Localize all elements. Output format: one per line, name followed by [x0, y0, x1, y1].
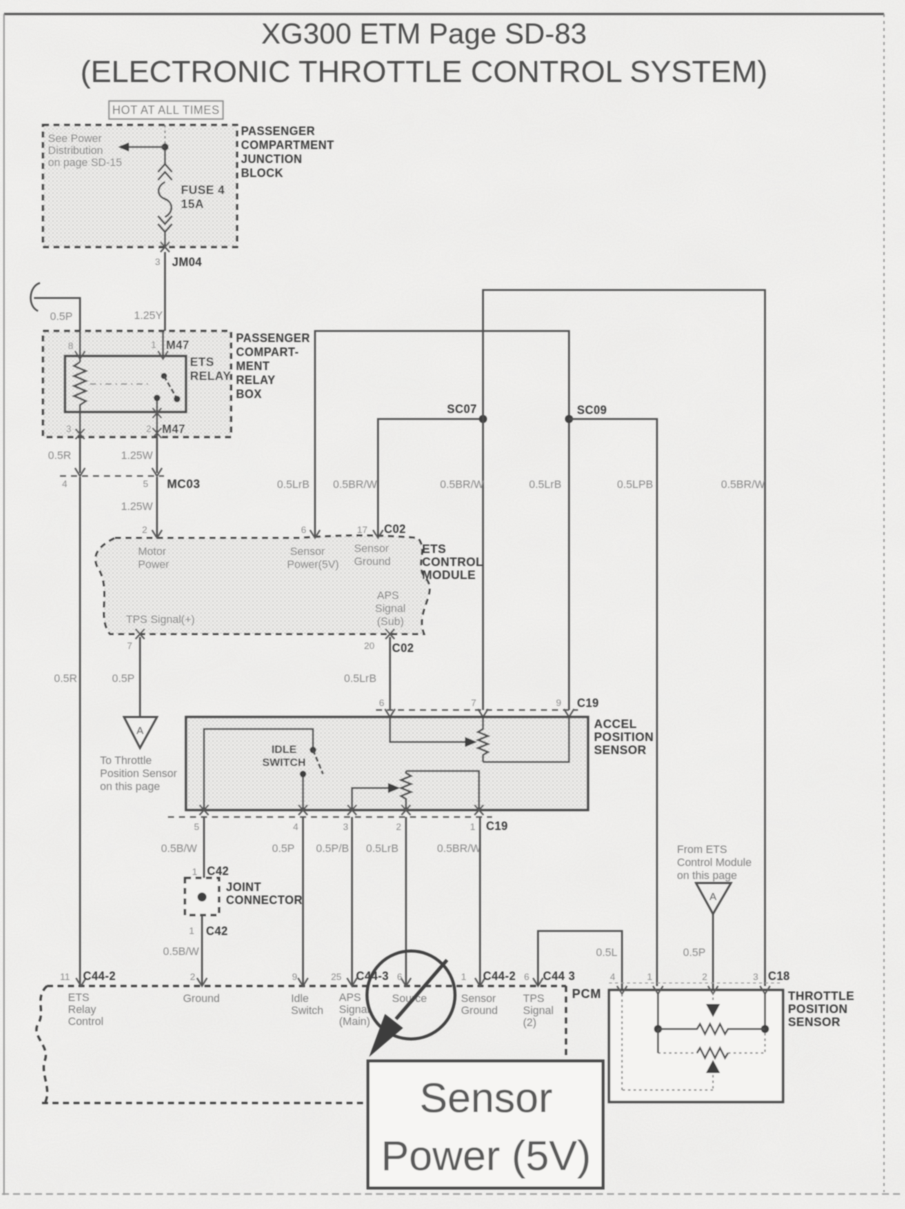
- svg-text:Relay: Relay: [68, 1004, 97, 1016]
- svg-text:0.5P: 0.5P: [112, 673, 135, 685]
- connector C02 bottom: [136, 629, 145, 639]
- connector C18 row: [609, 982, 783, 984]
- svg-text:0.5R: 0.5R: [48, 450, 71, 462]
- svg-text:ETS: ETS: [422, 542, 446, 556]
- svg-text:Switch: Switch: [291, 1005, 323, 1017]
- wire C19 pin2 to PCM source: [405, 817, 407, 986]
- wire C19 pin5 to joint connector C42: [203, 817, 205, 878]
- magnifier arrowhead: [369, 1014, 403, 1057]
- TPS box top pin marks: [617, 986, 627, 994]
- svg-text:9: 9: [292, 972, 297, 983]
- svg-text:0.5LrB: 0.5LrB: [277, 479, 309, 491]
- node SC09: [565, 415, 573, 423]
- relay pin 3 wire: [79, 412, 81, 437]
- relay switch contact top: [161, 373, 167, 379]
- node SC07: [479, 415, 487, 423]
- accel box bottom pin marks: [200, 805, 209, 815]
- accel pot 1 bottom to pin9: [483, 717, 569, 762]
- long left wire 0.5R down to PCM: [79, 477, 81, 986]
- magnifier shaft: [396, 960, 447, 1019]
- svg-text:SC09: SC09: [577, 405, 607, 417]
- fuse F4 connector chevrons top: [158, 164, 172, 180]
- svg-text:1.25Y: 1.25Y: [134, 310, 163, 322]
- svg-text:1: 1: [192, 867, 197, 878]
- idle switch contact bottom: [300, 771, 306, 777]
- page frame bottom: [2, 1193, 903, 1195]
- svg-text:FUSE 4: FUSE 4: [181, 183, 225, 197]
- svg-text:C19: C19: [577, 698, 599, 710]
- arrow to power distribution: [128, 146, 165, 148]
- svg-text:RELAY: RELAY: [190, 369, 231, 383]
- note: From ETS Control Module on this page: [677, 844, 752, 882]
- svg-text:20: 20: [364, 641, 375, 652]
- page frame left: [3, 14, 5, 1195]
- TPS wiper down-arrow: [706, 1004, 720, 1017]
- node junction dot: [162, 144, 169, 151]
- svg-text:7: 7: [471, 698, 476, 709]
- PCM pin name ETS Relay Control: [68, 992, 103, 1028]
- PCM box (dashed, torn left edge): [47, 985, 566, 987]
- TPS pin4 dotted return wire: [622, 993, 713, 1090]
- svg-text:2: 2: [146, 424, 151, 435]
- svg-text:POSITION: POSITION: [594, 730, 654, 744]
- svg-text:MENT: MENT: [236, 361, 270, 373]
- svg-text:0.5BR/W: 0.5BR/W: [437, 843, 482, 855]
- svg-text:C44-2: C44-2: [483, 971, 516, 983]
- relay switch contact right: [174, 396, 180, 402]
- svg-text:0.5P: 0.5P: [683, 947, 706, 959]
- label ETS RELAY: [190, 355, 231, 383]
- passenger compartment junction block box: [43, 125, 237, 247]
- svg-text:4: 4: [610, 972, 615, 983]
- svg-text:1: 1: [470, 822, 475, 833]
- off-page connector triangle A (from ETS module): [696, 883, 731, 914]
- svg-text:3: 3: [66, 424, 71, 435]
- svg-text:PASSENGER: PASSENGER: [236, 333, 310, 345]
- note: To Throttle Position Sensor on this page: [100, 755, 177, 793]
- joint connector C42 box: [185, 878, 219, 915]
- svg-text:Sensor: Sensor: [354, 543, 389, 555]
- accel pot 1 wiper arrow: [390, 717, 466, 742]
- svg-text:5: 5: [194, 822, 199, 833]
- svg-text:0.5BR/W: 0.5BR/W: [440, 479, 485, 491]
- idle switch blade: [313, 750, 323, 774]
- svg-text:C42: C42: [207, 866, 229, 878]
- idle switch output wire: [302, 777, 304, 810]
- svg-text:BLOCK: BLOCK: [241, 168, 284, 180]
- connector JM04: [155, 257, 202, 269]
- wire C19 pin4 to PCM idle switch: [302, 817, 304, 986]
- svg-text:0.5LrB: 0.5LrB: [529, 479, 561, 491]
- svg-text:COMPART-: COMPART-: [236, 347, 299, 359]
- svg-text:Motor: Motor: [138, 546, 166, 558]
- svg-text:ACCEL: ACCEL: [594, 717, 637, 731]
- svg-text:2: 2: [702, 972, 707, 983]
- svg-text:JUNCTION: JUNCTION: [241, 154, 302, 166]
- passenger compartment relay box (dashed): [43, 331, 231, 437]
- svg-text:0.5P: 0.5P: [50, 311, 73, 323]
- TPS up-arrow under R2: [706, 1060, 720, 1073]
- TPS pin2 wiper dotted wire: [712, 992, 714, 1003]
- R2 left feed from node: [657, 1029, 659, 1053]
- label ACCEL POSITION SENSOR: [594, 717, 654, 757]
- svg-text:Power: Power: [138, 559, 170, 571]
- connector C19 top: [376, 709, 578, 711]
- wire-break hook from left (0.5P feed): [31, 283, 40, 311]
- svg-text:THROTTLE: THROTTLE: [788, 989, 854, 1003]
- wire SC09 to C18 pin1: [569, 419, 657, 986]
- svg-text:COMPARTMENT: COMPARTMENT: [241, 140, 334, 152]
- svg-text:6: 6: [397, 972, 402, 983]
- sensor power callout box: [368, 1061, 603, 1188]
- svg-text:2: 2: [396, 822, 401, 833]
- svg-text:0.5BR/W: 0.5BR/W: [333, 479, 378, 491]
- svg-text:SC07: SC07: [447, 404, 477, 416]
- svg-text:0.5B/W: 0.5B/W: [161, 843, 198, 855]
- svg-text:A: A: [709, 891, 716, 903]
- svg-text:PASSENGER: PASSENGER: [241, 126, 315, 138]
- svg-text:4: 4: [62, 479, 67, 490]
- wire MC03 pin5 to module: [156, 477, 158, 538]
- svg-text:7: 7: [127, 641, 132, 652]
- svg-text:APS: APS: [377, 590, 399, 602]
- svg-text:15A: 15A: [181, 197, 204, 211]
- wire C42 to PCM ground: [201, 915, 203, 986]
- svg-text:8: 8: [68, 341, 73, 352]
- svg-text:C02: C02: [384, 524, 406, 536]
- svg-text:0.5LPB: 0.5LPB: [617, 479, 653, 491]
- svg-text:1: 1: [189, 926, 194, 937]
- PCM pin name APS Signal (Main): [339, 992, 370, 1028]
- label FUSE 4 15A: [181, 183, 225, 211]
- svg-text:Ground: Ground: [183, 993, 220, 1005]
- svg-text:2: 2: [142, 525, 147, 536]
- page frame right: [883, 14, 885, 1192]
- PCM top edge pin chevrons: [76, 978, 86, 986]
- wire C19 pin3 to PCM APS signal: [351, 817, 353, 986]
- x-mark at box exit: [161, 242, 170, 252]
- svg-text:0.5BR/W: 0.5BR/W: [721, 479, 766, 491]
- relay pin 1 wire + M47: [162, 331, 164, 357]
- svg-text:(2): (2): [523, 1017, 536, 1029]
- svg-text:Power(5V): Power(5V): [287, 559, 339, 571]
- PCM pin name Idle Switch: [291, 993, 323, 1017]
- svg-text:PCM: PCM: [572, 987, 601, 1001]
- throttle position sensor box: [609, 990, 783, 1102]
- svg-text:on page SD-15: on page SD-15: [48, 157, 122, 169]
- svg-text:0.5LrB: 0.5LrB: [344, 673, 376, 685]
- svg-text:6: 6: [301, 525, 306, 536]
- wire triangle A to C18 pin2: [712, 914, 714, 990]
- svg-text:From ETS: From ETS: [677, 844, 727, 856]
- note: see power distribution: [48, 133, 122, 169]
- svg-text:3: 3: [753, 972, 758, 983]
- wire node to fuse: [164, 150, 166, 165]
- magnifier circle highlight: [367, 951, 455, 1039]
- accel pot 1 resistor: [478, 717, 488, 762]
- label: PASSENGER COMPARTMENT JUNCTION BLOCK: [241, 126, 334, 180]
- relay switch blade: [164, 376, 176, 397]
- svg-text:M47: M47: [162, 424, 185, 436]
- svg-text:SENSOR: SENSOR: [594, 743, 647, 757]
- wire SC07 down to C19 pin7: [482, 419, 484, 710]
- svg-text:0.5L: 0.5L: [596, 947, 617, 959]
- svg-text:on this page: on this page: [100, 781, 160, 793]
- svg-text:(Main): (Main): [339, 1016, 370, 1028]
- svg-text:Position Sensor: Position Sensor: [100, 768, 177, 780]
- svg-text:XG300 ETM Page SD-83: XG300 ETM Page SD-83: [261, 19, 587, 51]
- accel pot 2 resistor: [401, 771, 411, 810]
- svg-text:9: 9: [556, 698, 561, 709]
- svg-text:Signal: Signal: [339, 1004, 370, 1016]
- svg-text:6: 6: [379, 698, 384, 709]
- svg-text:IDLE: IDLE: [271, 744, 296, 756]
- relay pin 8 wire: [79, 331, 81, 362]
- svg-text:Distribution: Distribution: [48, 145, 103, 157]
- svg-text:JM04: JM04: [172, 257, 202, 269]
- idle switch feed wire: [204, 729, 313, 810]
- wire C19 pin1 to PCM sensor ground: [479, 817, 481, 986]
- svg-text:MODULE: MODULE: [422, 568, 476, 582]
- wire from box top to node: [164, 125, 166, 144]
- svg-text:C44-2: C44-2: [83, 971, 116, 983]
- idle switch contact top: [310, 747, 316, 753]
- relay pin 2 wire: [156, 401, 158, 437]
- fuse FUSE 4 15A element: [159, 182, 172, 217]
- svg-text:ETS: ETS: [68, 992, 89, 1004]
- wire TPS Signal(+) down to triangle A: [139, 637, 141, 716]
- svg-text:Signal: Signal: [523, 1005, 554, 1017]
- svg-text:POSITION: POSITION: [788, 1002, 848, 1016]
- wire to JM04: [164, 252, 166, 331]
- svg-text:1: 1: [461, 972, 466, 983]
- svg-text:C42: C42: [206, 926, 228, 938]
- svg-text:CONNECTOR: CONNECTOR: [226, 895, 303, 907]
- label: PASSENGER COMPART-MENT RELAY BOX: [236, 333, 310, 401]
- TPS pin3 wire to node: [764, 992, 766, 1029]
- svg-text:See Power: See Power: [48, 133, 102, 145]
- page frame top: [4, 13, 884, 15]
- svg-text:1: 1: [151, 340, 156, 351]
- svg-text:TPS: TPS: [523, 993, 544, 1005]
- svg-text:Signal: Signal: [375, 603, 406, 615]
- label IDLE SWITCH: [262, 744, 305, 769]
- svg-text:Ground: Ground: [461, 1005, 498, 1017]
- joint connector node dot: [198, 893, 207, 902]
- relay ETS RELAY outline: [65, 356, 186, 412]
- svg-text:C02: C02: [392, 643, 414, 655]
- svg-text:Control: Control: [68, 1016, 103, 1028]
- PCM pin name Sensor Ground: [461, 993, 498, 1017]
- svg-text:(ELECTRONIC THROTTLE CONTROL S: (ELECTRONIC THROTTLE CONTROL SYSTEM): [80, 54, 767, 89]
- wire PCM TPS signal up-over to C18 pin4: [538, 931, 622, 990]
- svg-text:BOX: BOX: [236, 389, 262, 401]
- wire relay pin3 down: [79, 437, 81, 473]
- svg-text:C44 3: C44 3: [543, 971, 575, 983]
- wire SC07 up over to C18 pin3: [483, 290, 765, 986]
- svg-text:3: 3: [155, 257, 160, 268]
- accel pot 2 top wire to pin1: [406, 771, 479, 810]
- svg-text:5: 5: [143, 479, 148, 490]
- relay coil: [74, 362, 86, 412]
- svg-text:0.5P/B: 0.5P/B: [316, 843, 349, 855]
- svg-text:1.25W: 1.25W: [121, 501, 153, 513]
- svg-text:SENSOR: SENSOR: [788, 1015, 841, 1029]
- svg-text:Sensor: Sensor: [290, 546, 325, 558]
- label THROTTLE POSITION SENSOR: [788, 989, 854, 1029]
- svg-text:17: 17: [357, 525, 368, 536]
- svg-text:C18: C18: [768, 971, 790, 983]
- connector C19 bottom: [168, 816, 492, 818]
- label JOINT CONNECTOR: [226, 882, 303, 907]
- svg-text:Ground: Ground: [354, 556, 391, 568]
- svg-text:11: 11: [60, 972, 70, 983]
- svg-text:Sensor: Sensor: [419, 1074, 552, 1121]
- off-page connector triangle A (to TPS): [124, 717, 157, 748]
- svg-text:Sensor: Sensor: [461, 993, 496, 1005]
- svg-text:1.25W: 1.25W: [121, 450, 153, 462]
- R2 right feed dotted: [764, 1033, 766, 1053]
- svg-text:APS: APS: [339, 992, 361, 1004]
- net 0.5LrB: C02 pin6 up over to SC09 down to C19 pin9: [315, 331, 569, 710]
- HOT AT ALL TIMES label box: [109, 101, 223, 119]
- svg-text:1: 1: [647, 972, 652, 983]
- svg-text:A: A: [136, 725, 143, 737]
- TPS resistor R1: [658, 1024, 765, 1034]
- svg-text:CONTROL: CONTROL: [422, 555, 483, 569]
- svg-text:M47: M47: [166, 340, 189, 352]
- TPS resistor R2 (dotted ends): [697, 1048, 728, 1058]
- svg-text:0.5LrB: 0.5LrB: [366, 843, 398, 855]
- svg-text:0.5P: 0.5P: [272, 843, 295, 855]
- svg-text:0.5R: 0.5R: [54, 673, 77, 685]
- svg-text:ETS: ETS: [190, 355, 214, 369]
- wire fuse to box bottom: [164, 232, 166, 247]
- svg-text:25: 25: [331, 972, 342, 983]
- svg-text:HOT AT ALL TIMES: HOT AT ALL TIMES: [112, 105, 219, 117]
- net 0.5BR/W: C02 pin17 up to SC07: [378, 419, 483, 538]
- connector C02 top pins: [152, 530, 162, 538]
- accel pot 2 wiper arrow: [352, 788, 389, 810]
- wire relay pin2 down: [156, 437, 158, 473]
- relay coil-contact link (dash-dot): [90, 383, 150, 385]
- label ETS CONTROL MODULE: [422, 542, 483, 582]
- ETS control module body (torn dashed outline, stippled): [95, 536, 429, 635]
- svg-text:2: 2: [190, 972, 195, 983]
- svg-text:C19: C19: [486, 821, 508, 833]
- TPS pin1 wire to node: [657, 992, 659, 1029]
- svg-text:SWITCH: SWITCH: [262, 757, 305, 769]
- svg-text:3: 3: [343, 822, 348, 833]
- svg-text:Power (5V): Power (5V): [381, 1132, 591, 1179]
- svg-text:Control Module: Control Module: [677, 857, 752, 869]
- relay switch contact left (to pin 2): [154, 395, 160, 401]
- svg-text:on this page: on this page: [677, 870, 737, 882]
- accel position sensor box: [186, 717, 588, 810]
- svg-text:JOINT: JOINT: [226, 882, 261, 894]
- PCM pin name TPS Signal (2): [523, 993, 554, 1029]
- wire APS Signal (Sub) down to C19 pin6: [389, 637, 391, 710]
- svg-text:4: 4: [293, 822, 298, 833]
- svg-text:6: 6: [524, 972, 529, 983]
- svg-text:Idle: Idle: [291, 993, 309, 1005]
- svg-text:To Throttle: To Throttle: [100, 755, 152, 767]
- svg-text:RELAY: RELAY: [236, 375, 275, 387]
- svg-text:TPS Signal(+): TPS Signal(+): [126, 614, 195, 626]
- svg-text:0.5B/W: 0.5B/W: [163, 946, 200, 958]
- svg-text:MC03: MC03: [167, 477, 200, 491]
- wire hook to relay: [34, 298, 80, 331]
- fuse connector chevrons bottom: [158, 216, 172, 232]
- connector MC03: [60, 475, 164, 477]
- svg-text:(Sub): (Sub): [377, 616, 404, 628]
